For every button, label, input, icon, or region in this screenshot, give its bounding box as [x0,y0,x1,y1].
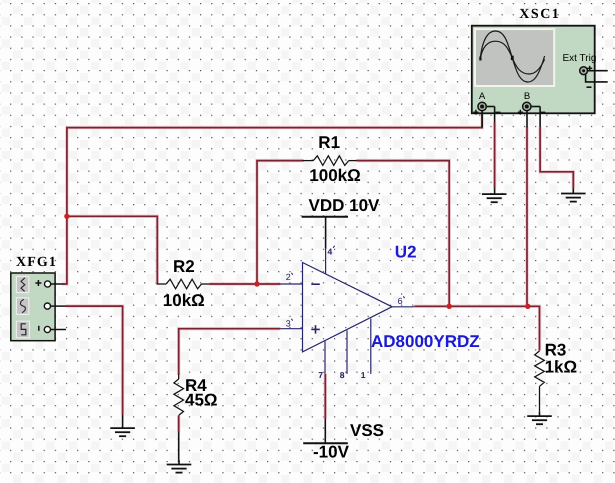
svg-text:3: 3 [286,319,291,329]
svg-text:R2: R2 [173,257,195,276]
pin number 4 [328,246,335,257]
svg-text:8: 8 [340,370,345,380]
svg-text:6: 6 [398,296,403,306]
pin number 1 [361,370,366,380]
power VSS -10V [303,419,384,462]
svg-text:AD8000YRDZ: AD8000YRDZ [371,332,480,351]
wire: R1 right branch down to output node [357,161,450,307]
svg-text:A: A [479,91,486,102]
wire: scope A minus to ground [494,107,496,195]
wire: pin 7 down to VSS [324,374,327,419]
wire: node A up and right to scope channel A [67,113,482,217]
wire: output node from pin 6 to R3 [414,306,539,350]
pin number 3 [286,319,293,329]
ground under XFG1 common [110,423,135,436]
wire: R1 left branch [257,161,304,284]
svg-text:-10V: -10V [313,443,350,462]
svg-text:B: B [524,91,530,102]
ground under scope A [482,194,507,202]
wire: scope B plus stub [526,111,528,128]
svg-text:U2: U2 [395,243,417,262]
pin number 7 [318,370,323,380]
svg-text:4: 4 [328,247,333,257]
ground under scope B [561,194,586,202]
op-amp U2 [280,249,414,374]
resistor R3 [535,340,577,412]
pin number 6 [398,296,405,306]
wire: scope A plus stub [481,111,483,128]
wire: XFG1 common to ground [66,306,123,423]
svg-text:10kΩ: 10kΩ [163,291,205,310]
wire: op-amp pin 3 left and down to R4 [179,329,281,375]
wire: XFG1 plus terminal up to node A [63,216,67,284]
resistor R2 [157,257,211,310]
svg-text:XSC1: XSC1 [519,7,560,22]
resistor R1 [303,133,361,185]
power VDD 10V [302,196,380,249]
ground under R4 [167,460,192,473]
svg-text:Ext Trig: Ext Trig [563,53,597,64]
pin number 8 [340,370,345,380]
svg-text:1kΩ: 1kΩ [545,357,578,376]
svg-text:R1: R1 [318,133,340,152]
function generator XFG1 [11,255,66,341]
svg-text:7: 7 [318,370,323,380]
wire: R4 to ground [177,415,180,460]
label U2 [395,243,417,262]
pin number 2 [286,272,293,282]
label AD8000YRDZ [371,332,480,351]
svg-text:100kΩ: 100kΩ [309,166,360,185]
svg-text:XFG1: XFG1 [16,255,57,270]
svg-text:VDD 10V: VDD 10V [309,196,381,215]
resistor R4 [174,375,218,416]
wire: scope B minus to ground [540,107,573,194]
junction node A [64,214,69,219]
junction: scope B joins output [525,304,530,309]
svg-text:VSS: VSS [350,421,384,440]
svg-text:2: 2 [286,272,291,282]
ground under R3 [527,412,552,424]
junction: R1 feedback joins output [447,304,452,309]
wire: R2 to op-amp pin 2 [210,282,281,285]
wire: node A to R2 left [67,216,157,284]
svg-text:1: 1 [361,370,366,380]
svg-text:45Ω: 45Ω [185,390,218,409]
wire: scope B plus down to output node [525,127,528,307]
oscilloscope XSC1 [472,7,608,115]
junction: R1 left branch joins pin2 wire [254,281,259,286]
